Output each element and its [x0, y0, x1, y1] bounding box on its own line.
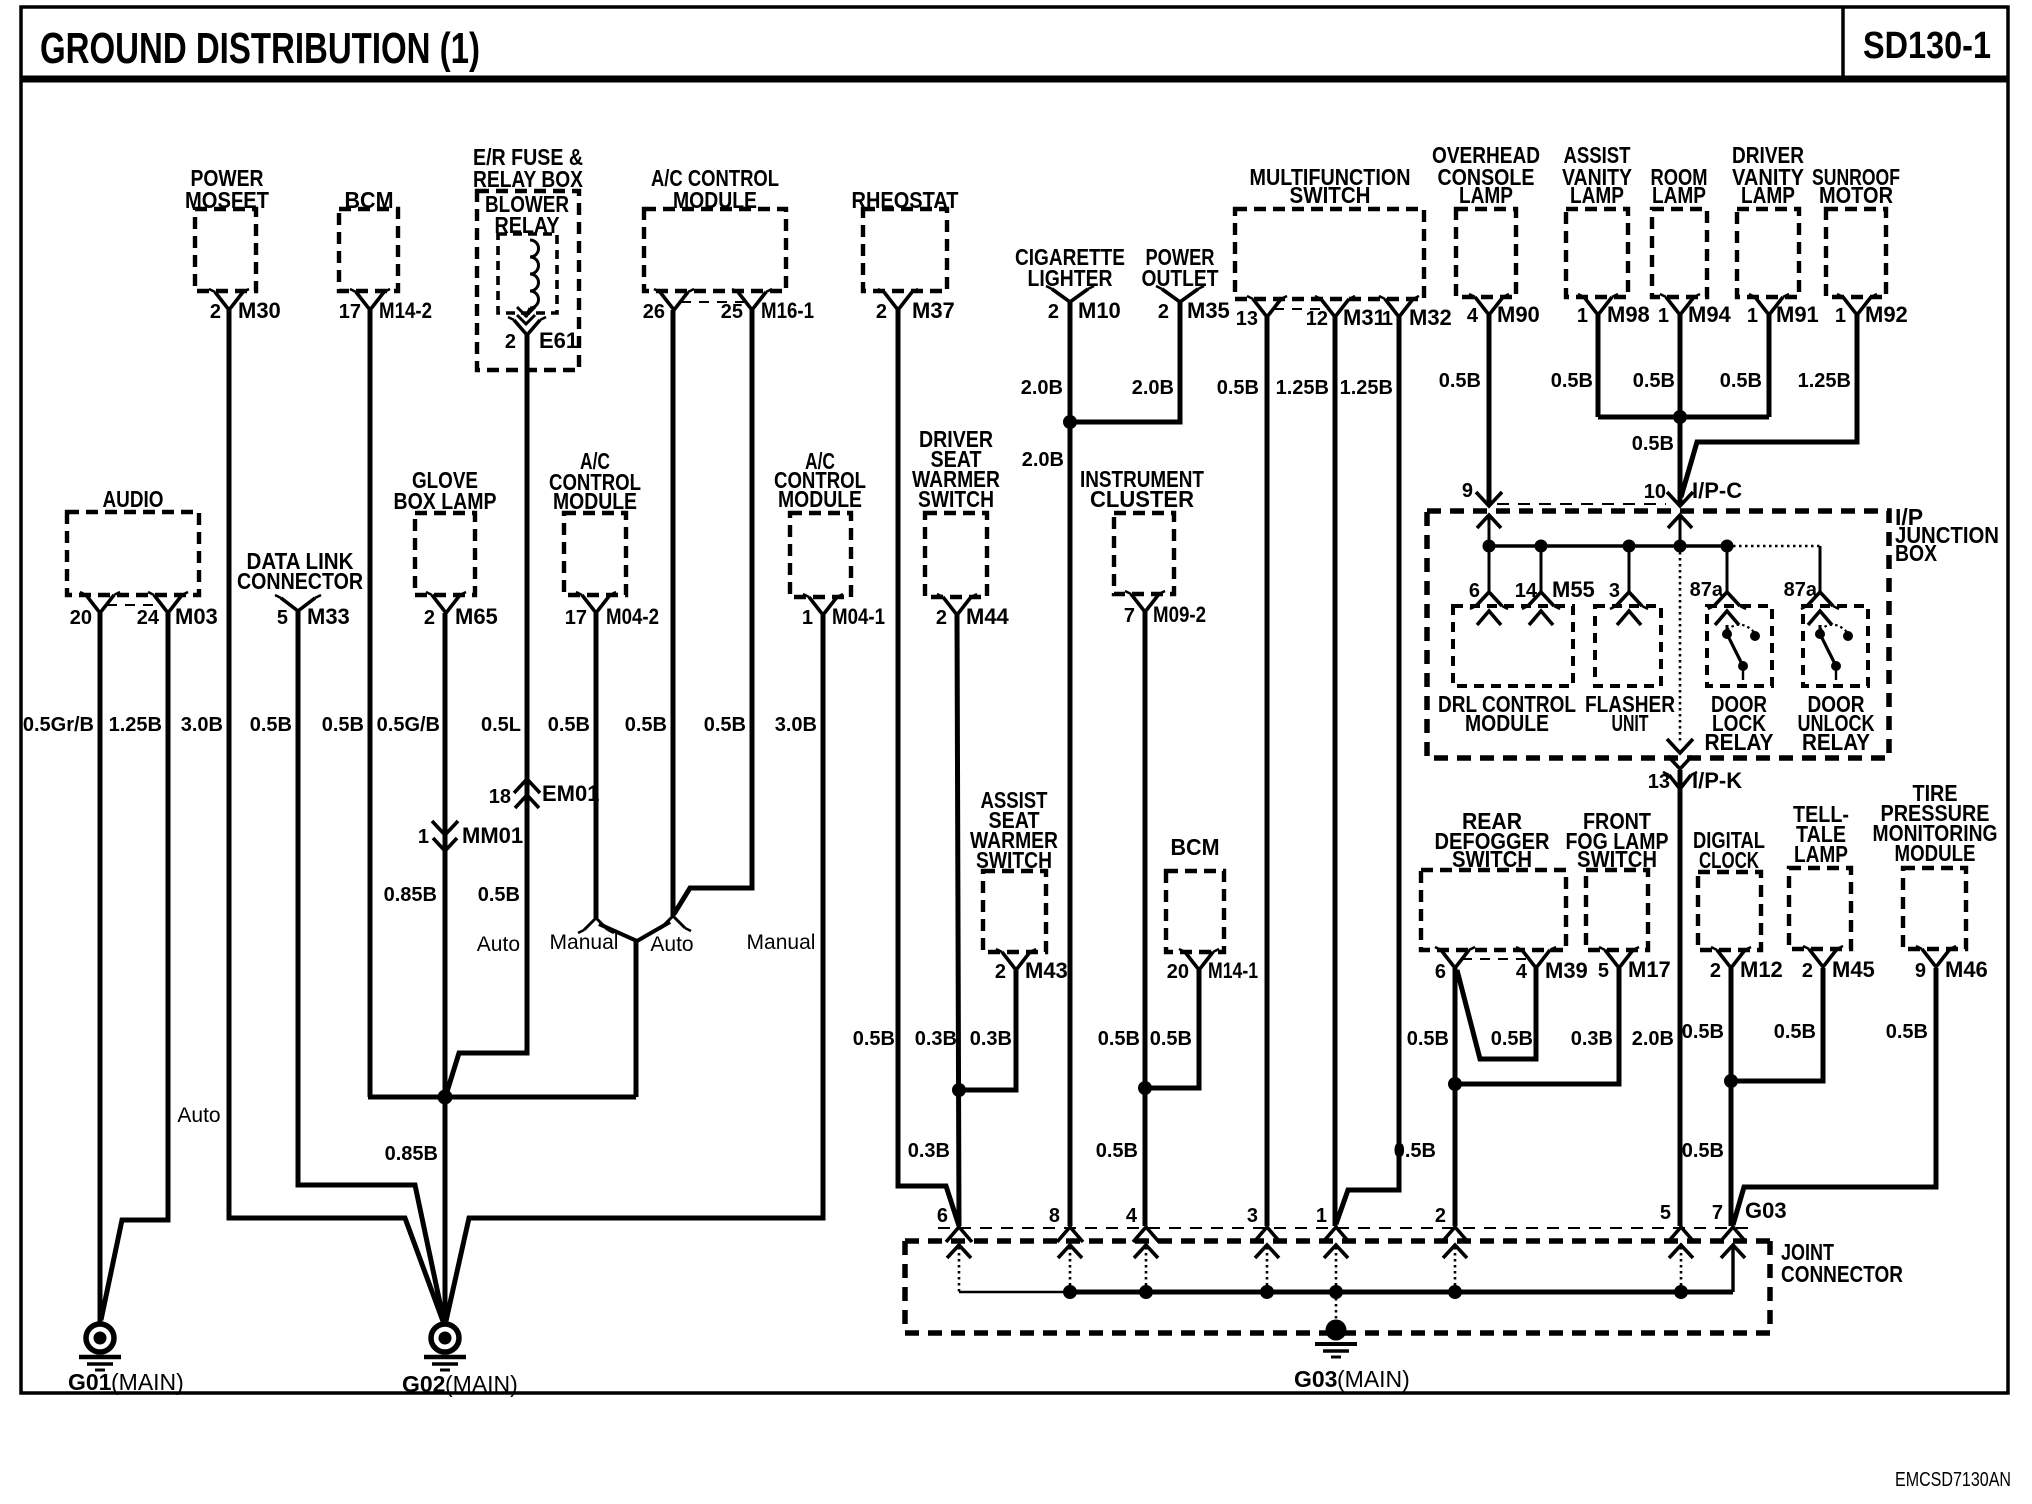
svg-text:Manual: Manual	[550, 931, 619, 954]
svg-text:0.5B: 0.5B	[1774, 1021, 1816, 1043]
svg-text:0.5B: 0.5B	[1096, 1140, 1138, 1162]
svg-text:G03: G03	[1745, 1198, 1787, 1223]
svg-text:87a: 87a	[1690, 579, 1724, 601]
svg-text:Auto: Auto	[650, 933, 693, 956]
svg-text:UNIT: UNIT	[1612, 710, 1649, 736]
svg-text:1: 1	[1835, 305, 1846, 327]
svg-text:2: 2	[505, 331, 516, 353]
svg-text:SWITCH: SWITCH	[918, 486, 994, 512]
svg-text:M32: M32	[1409, 305, 1452, 330]
svg-text:0.5B: 0.5B	[1150, 1028, 1192, 1050]
svg-text:13: 13	[1648, 771, 1670, 793]
svg-text:0.85B: 0.85B	[384, 884, 437, 906]
svg-text:3: 3	[1247, 1205, 1258, 1227]
svg-text:1.25B: 1.25B	[1340, 377, 1393, 399]
svg-text:5: 5	[1598, 960, 1609, 982]
svg-text:25: 25	[721, 301, 743, 323]
svg-text:G03: G03	[1294, 1366, 1337, 1392]
svg-text:0.5Gr/B: 0.5Gr/B	[23, 714, 94, 736]
svg-text:0.5B: 0.5B	[1098, 1028, 1140, 1050]
svg-text:18: 18	[489, 786, 511, 808]
svg-text:BCM: BCM	[1171, 834, 1220, 860]
svg-text:LAMP: LAMP	[1741, 182, 1795, 208]
svg-text:M30: M30	[238, 298, 281, 323]
svg-text:3.0B: 3.0B	[181, 714, 223, 736]
svg-text:2.0B: 2.0B	[1021, 377, 1063, 399]
svg-text:6: 6	[937, 1205, 948, 1227]
svg-text:MOTOR: MOTOR	[1819, 182, 1893, 208]
svg-text:0.5G/B: 0.5G/B	[377, 714, 440, 736]
svg-text:CONNECTOR: CONNECTOR	[237, 568, 363, 594]
svg-text:7: 7	[1712, 1202, 1723, 1224]
svg-text:2: 2	[424, 607, 435, 629]
svg-text:MODULE: MODULE	[778, 486, 862, 512]
svg-text:M46: M46	[1945, 957, 1988, 982]
svg-text:4: 4	[1516, 961, 1528, 983]
svg-text:CLUSTER: CLUSTER	[1090, 486, 1194, 512]
svg-text:5: 5	[277, 607, 288, 629]
svg-text:12: 12	[1306, 308, 1328, 330]
svg-text:17: 17	[339, 301, 361, 323]
svg-text:2: 2	[876, 301, 887, 323]
svg-text:M04-2: M04-2	[606, 604, 659, 629]
svg-text:LIGHTER: LIGHTER	[1028, 265, 1113, 291]
svg-text:M94: M94	[1688, 302, 1732, 327]
svg-text:2: 2	[1158, 301, 1169, 323]
svg-text:Auto: Auto	[477, 933, 520, 956]
svg-text:BOX LAMP: BOX LAMP	[394, 488, 497, 514]
svg-text:0.5B: 0.5B	[1394, 1140, 1436, 1162]
svg-text:2: 2	[1802, 960, 1813, 982]
svg-text:26: 26	[643, 301, 665, 323]
svg-text:I/P-K: I/P-K	[1692, 768, 1742, 793]
svg-text:0.5B: 0.5B	[1682, 1021, 1724, 1043]
svg-text:87a: 87a	[1784, 579, 1818, 601]
svg-text:Manual: Manual	[747, 931, 816, 954]
svg-text:M33: M33	[307, 604, 350, 629]
svg-text:0.3B: 0.3B	[915, 1028, 957, 1050]
svg-text:MODULE: MODULE	[1465, 710, 1549, 736]
svg-text:CONNECTOR: CONNECTOR	[1781, 1261, 1903, 1287]
svg-text:0.5L: 0.5L	[481, 714, 521, 736]
svg-text:1: 1	[802, 607, 813, 629]
svg-text:M12: M12	[1740, 957, 1783, 982]
svg-text:0.85B: 0.85B	[385, 1143, 438, 1165]
svg-text:RELAY: RELAY	[1802, 729, 1870, 755]
svg-text:14: 14	[1515, 580, 1538, 602]
svg-text:MODULE: MODULE	[553, 488, 637, 514]
svg-text:M90: M90	[1497, 302, 1540, 327]
svg-text:9: 9	[1462, 480, 1473, 502]
svg-text:13: 13	[1236, 308, 1258, 330]
svg-text:M17: M17	[1628, 957, 1671, 982]
svg-text:4: 4	[1467, 305, 1479, 327]
svg-text:1: 1	[418, 826, 429, 848]
svg-text:2.0B: 2.0B	[1022, 449, 1064, 471]
svg-text:0.5B: 0.5B	[1632, 433, 1674, 455]
svg-text:2: 2	[1435, 1205, 1446, 1227]
svg-text:AUDIO: AUDIO	[103, 486, 164, 512]
svg-text:0.3B: 0.3B	[1571, 1028, 1613, 1050]
svg-text:1: 1	[1316, 1205, 1327, 1227]
svg-text:EMCSD7130AN: EMCSD7130AN	[1895, 1469, 2011, 1491]
svg-text:0.5B: 0.5B	[1633, 370, 1675, 392]
svg-text:M91: M91	[1776, 302, 1819, 327]
svg-text:RELAY: RELAY	[1705, 729, 1774, 755]
svg-text:2: 2	[936, 607, 947, 629]
svg-text:9: 9	[1915, 960, 1926, 982]
svg-text:2: 2	[1048, 301, 1059, 323]
svg-text:4: 4	[1126, 1205, 1138, 1227]
svg-text:M16-1: M16-1	[761, 298, 814, 323]
svg-text:M09-2: M09-2	[1153, 602, 1206, 627]
svg-text:M14-1: M14-1	[1208, 958, 1258, 983]
svg-text:M35: M35	[1187, 298, 1230, 323]
svg-text:M14-2: M14-2	[379, 298, 432, 323]
svg-text:10: 10	[1644, 481, 1666, 503]
svg-text:M98: M98	[1607, 302, 1650, 327]
svg-text:1: 1	[1577, 305, 1588, 327]
svg-text:G02: G02	[402, 1371, 445, 1397]
svg-text:SD130-1: SD130-1	[1863, 25, 1991, 67]
svg-text:Auto: Auto	[177, 1104, 220, 1127]
svg-text:0.5B: 0.5B	[1439, 370, 1481, 392]
svg-text:0.5B: 0.5B	[1886, 1021, 1928, 1043]
svg-text:1: 1	[1658, 305, 1669, 327]
svg-text:0.5B: 0.5B	[548, 714, 590, 736]
svg-text:LAMP: LAMP	[1652, 182, 1706, 208]
svg-text:M03: M03	[175, 604, 218, 629]
svg-text:(MAIN): (MAIN)	[111, 1369, 184, 1395]
svg-text:M43: M43	[1025, 958, 1068, 983]
svg-text:6: 6	[1435, 961, 1446, 983]
svg-text:0.3B: 0.3B	[908, 1140, 950, 1162]
svg-text:6: 6	[1469, 580, 1480, 602]
svg-text:M10: M10	[1078, 298, 1121, 323]
svg-text:24: 24	[137, 607, 160, 629]
svg-text:5: 5	[1660, 1202, 1671, 1224]
svg-text:2: 2	[1710, 960, 1721, 982]
svg-text:I/P-C: I/P-C	[1692, 478, 1742, 503]
svg-text:MODULE: MODULE	[1895, 840, 1976, 866]
svg-text:M65: M65	[455, 604, 498, 629]
svg-text:8: 8	[1049, 1205, 1060, 1227]
svg-text:3.0B: 3.0B	[775, 714, 817, 736]
svg-text:EM01: EM01	[542, 781, 599, 806]
svg-text:RELAY BOX: RELAY BOX	[473, 166, 584, 192]
svg-text:1: 1	[1747, 305, 1758, 327]
svg-text:0.5B: 0.5B	[1551, 370, 1593, 392]
svg-text:MM01: MM01	[462, 823, 523, 848]
svg-text:0.5B: 0.5B	[322, 714, 364, 736]
svg-text:0.5B: 0.5B	[1217, 377, 1259, 399]
svg-text:M92: M92	[1865, 302, 1908, 327]
svg-text:17: 17	[565, 607, 587, 629]
svg-text:2: 2	[995, 961, 1006, 983]
svg-text:LAMP: LAMP	[1794, 841, 1848, 867]
svg-text:2.0B: 2.0B	[1132, 377, 1174, 399]
svg-text:E61: E61	[539, 328, 578, 353]
svg-text:0.5B: 0.5B	[1720, 370, 1762, 392]
svg-text:0.5B: 0.5B	[1407, 1028, 1449, 1050]
svg-text:0.5B: 0.5B	[704, 714, 746, 736]
svg-text:0.5B: 0.5B	[250, 714, 292, 736]
svg-text:GROUND DISTRIBUTION (1): GROUND DISTRIBUTION (1)	[40, 24, 480, 73]
svg-text:2: 2	[210, 301, 221, 323]
svg-text:LAMP: LAMP	[1459, 182, 1513, 208]
svg-text:M39: M39	[1545, 958, 1588, 983]
svg-text:M45: M45	[1832, 957, 1875, 982]
svg-text:0.5B: 0.5B	[853, 1028, 895, 1050]
svg-text:(MAIN): (MAIN)	[1337, 1366, 1410, 1392]
svg-text:0.5B: 0.5B	[478, 884, 520, 906]
svg-text:3: 3	[1609, 580, 1620, 602]
svg-text:1: 1	[1382, 308, 1393, 330]
svg-text:M37: M37	[912, 298, 955, 323]
svg-text:0.5B: 0.5B	[1491, 1028, 1533, 1050]
svg-text:7: 7	[1124, 605, 1135, 627]
svg-text:M55: M55	[1552, 577, 1595, 602]
svg-text:BOX: BOX	[1895, 540, 1938, 566]
svg-text:0.5B: 0.5B	[1682, 1140, 1724, 1162]
svg-text:2.0B: 2.0B	[1632, 1028, 1674, 1050]
svg-text:1.25B: 1.25B	[109, 714, 162, 736]
svg-text:(MAIN): (MAIN)	[445, 1371, 518, 1397]
svg-text:20: 20	[1167, 961, 1189, 983]
svg-text:0.5B: 0.5B	[625, 714, 667, 736]
svg-text:OUTLET: OUTLET	[1142, 265, 1219, 291]
svg-text:SWITCH: SWITCH	[1290, 182, 1371, 208]
svg-text:M31: M31	[1343, 305, 1386, 330]
svg-text:1.25B: 1.25B	[1798, 370, 1851, 392]
svg-text:0.3B: 0.3B	[970, 1028, 1012, 1050]
svg-text:CLOCK: CLOCK	[1699, 847, 1759, 873]
svg-text:M04-1: M04-1	[832, 604, 885, 629]
svg-text:20: 20	[70, 607, 92, 629]
svg-text:M44: M44	[966, 604, 1010, 629]
svg-text:1.25B: 1.25B	[1276, 377, 1329, 399]
svg-text:LAMP: LAMP	[1570, 182, 1624, 208]
svg-text:G01: G01	[68, 1369, 112, 1395]
